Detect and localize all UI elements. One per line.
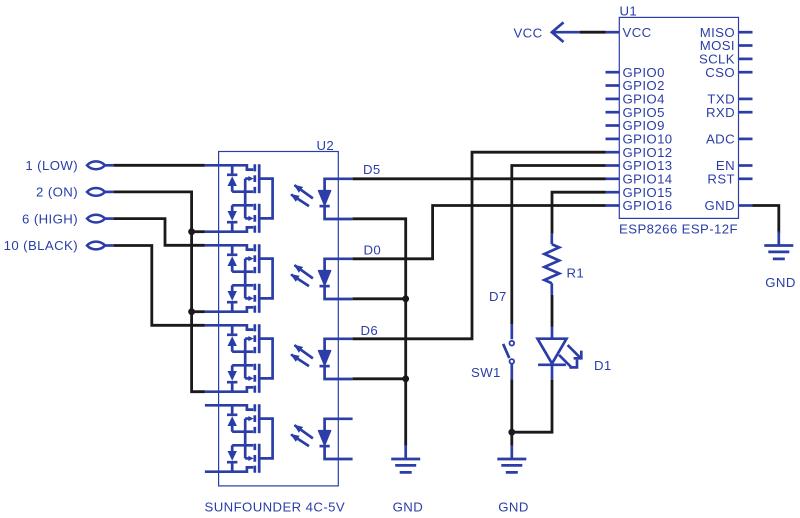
wire R1 to D1 <box>551 295 554 327</box>
LED D1 <box>538 327 582 380</box>
svg-text:GND: GND <box>704 198 735 213</box>
svg-text:D6: D6 <box>361 323 379 338</box>
U2 ch3 opto LED <box>291 339 353 379</box>
wire D1 to ground junction <box>512 380 552 432</box>
U2 ch4 output MOSFET pair <box>219 404 273 473</box>
U2 ch2 left pin stubs <box>205 245 219 311</box>
U1 pin GPIO12 <box>606 145 673 160</box>
junction 2(ON)/ch1 <box>188 228 195 235</box>
svg-text:D0: D0 <box>364 243 382 258</box>
wire ch3 cathode branch <box>353 377 406 380</box>
connector pin 6 (HIGH) <box>22 211 114 226</box>
svg-text:10 (BLACK): 10 (BLACK) <box>4 238 78 253</box>
svg-text:RXD: RXD <box>706 105 735 120</box>
svg-text:CSO: CSO <box>705 65 735 80</box>
U1 pin CSO <box>705 65 752 80</box>
svg-text:D7: D7 <box>489 289 507 304</box>
U1 pin VCC <box>606 25 652 40</box>
U1 pin GPIO0 <box>606 65 665 80</box>
U1 pin GPIO4 <box>606 92 665 107</box>
wire net D5 U2 ch1 anode to GPIO14 <box>353 177 606 180</box>
U2 ch1 left pin stubs <box>205 165 219 231</box>
connector pin 10 (BLACK) <box>4 238 114 253</box>
wire net 6(HIGH) to U2 ch2 top <box>114 219 205 246</box>
U1 pin MOSI <box>700 38 753 53</box>
U1 pin MISO <box>700 25 753 40</box>
svg-text:VCC: VCC <box>623 25 652 40</box>
wire net 10(BLACK) to U2 ch3 top <box>114 246 205 326</box>
svg-text:GND: GND <box>498 500 529 515</box>
wire net D6 U2 ch3 anode to GPIO12 <box>353 152 606 339</box>
U1 pin RST <box>707 172 752 187</box>
svg-text:D1: D1 <box>594 358 612 373</box>
svg-text:D5: D5 <box>363 162 381 177</box>
U1 pin TXD <box>707 92 752 107</box>
wire LED cathode bus to GND <box>353 219 406 446</box>
svg-text:U1: U1 <box>620 4 638 19</box>
connector pin 2 (ON) <box>36 185 114 200</box>
svg-text:ESP8266 ESP-12F: ESP8266 ESP-12F <box>619 222 738 237</box>
U1 pin GPIO13 <box>606 158 673 173</box>
wire U1 GND pin to ground <box>753 206 779 234</box>
wire GPIO15 to R1 <box>552 192 606 233</box>
svg-text:6 (HIGH): 6 (HIGH) <box>22 211 78 226</box>
chip U1 body <box>619 17 738 218</box>
svg-text:GPIO16: GPIO16 <box>623 198 673 213</box>
U1 pin GPIO9 <box>606 118 665 133</box>
wire net 2(ON) vertical to U2 ch3 bottom <box>114 192 205 392</box>
ground symbol middle <box>391 445 420 472</box>
U1 pin EN <box>716 158 753 173</box>
junction cathode/ch3 <box>402 375 409 382</box>
U2 ch4 opto LED <box>291 419 353 459</box>
svg-text:GND: GND <box>393 500 424 515</box>
svg-text:2 (ON): 2 (ON) <box>36 185 78 200</box>
U1 pin GND <box>704 198 752 213</box>
U2 ch3 output MOSFET pair <box>219 324 273 393</box>
wire net 1(LOW) to U2 ch1 <box>114 164 205 167</box>
svg-text:ADC: ADC <box>706 132 735 147</box>
svg-text:U2: U2 <box>317 138 335 153</box>
U1 pin SCLK <box>699 52 753 67</box>
U1 pin GPIO2 <box>606 78 665 93</box>
junction cathode/ch2 <box>402 295 409 302</box>
connector pin 1 (LOW) <box>25 158 113 173</box>
U2 ch1 opto LED <box>291 179 353 219</box>
junction 2(ON)/ch2 <box>188 308 195 315</box>
svg-text:R1: R1 <box>567 266 585 281</box>
svg-text:1 (LOW): 1 (LOW) <box>25 158 78 173</box>
U2 ch2 opto LED <box>291 259 353 299</box>
resistor R1 <box>544 234 559 295</box>
switch SW1 <box>503 324 514 379</box>
wire VCC to U1 <box>580 31 606 34</box>
U1 pin GPIO15 <box>606 185 673 200</box>
U1 pin GPIO10 <box>606 132 673 147</box>
U1 pin GPIO16 <box>606 198 673 213</box>
wire net D0 U2 ch2 anode to GPIO16 <box>353 206 606 259</box>
wire net D7 GPIO13 to SW1 <box>512 166 606 325</box>
power symbol VCC <box>513 22 580 42</box>
wire ch2 cathode branch <box>353 297 406 300</box>
svg-text:RST: RST <box>707 172 735 187</box>
wire branch 2(ON) to U2 ch1 bottom <box>192 230 205 233</box>
U1 pin RXD <box>706 105 753 120</box>
svg-text:GND: GND <box>765 275 796 290</box>
component box U2 <box>219 152 339 486</box>
U1 pin GPIO5 <box>606 105 665 120</box>
U2 ch3 left pin stubs <box>205 325 219 391</box>
svg-text:VCC: VCC <box>513 26 542 41</box>
ground symbol right <box>764 232 793 259</box>
U2 ch4 left pin stubs <box>205 405 219 471</box>
junction SW1/D1 ground <box>508 429 515 436</box>
U1 pin ADC <box>706 132 753 147</box>
U1 pin GPIO14 <box>606 172 673 187</box>
U2 ch1 output MOSFET pair <box>219 164 273 233</box>
wire branch 2(ON) to U2 ch2 bottom <box>192 310 205 313</box>
ground symbol switch <box>497 445 526 472</box>
svg-text:SW1: SW1 <box>471 365 501 380</box>
svg-text:SUNFOUNDER 4C-5V: SUNFOUNDER 4C-5V <box>205 500 346 515</box>
wire SW1 to ground junction <box>510 379 513 446</box>
U2 ch2 output MOSFET pair <box>219 244 273 313</box>
